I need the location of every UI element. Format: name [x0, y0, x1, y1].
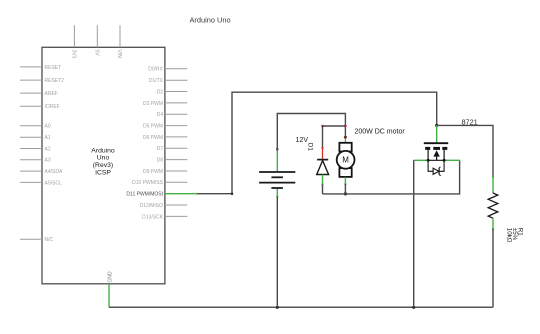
pin RESET2	[20, 78, 64, 84]
wire: green source lead (left)	[414, 159, 428, 161]
svg-text:D0/RX: D0/RX	[148, 67, 163, 73]
pin A1	[20, 135, 51, 141]
junction: MOSFET source on rail	[412, 306, 415, 309]
svg-text:N/C: N/C	[45, 237, 54, 243]
diode D1 symbol	[317, 160, 329, 175]
pin VIN (top)	[116, 25, 122, 58]
pin D7	[157, 146, 188, 152]
wire: diode anode to bottom mid wire	[322, 185, 324, 194]
pin D8	[157, 158, 188, 164]
wire: diode cathode lead (black then red)	[322, 126, 324, 148]
motor M1 (200W DC motor)	[337, 143, 355, 177]
svg-text:GND: GND	[107, 271, 113, 283]
pin RESET	[20, 65, 61, 71]
pin GND (bottom, connected)	[107, 271, 113, 283]
pin N/C	[20, 237, 54, 243]
wire: D11 green lead	[165, 193, 197, 195]
pin A4/SDA	[20, 169, 63, 175]
svg-text:A2: A2	[45, 146, 51, 152]
wire: D11 to top rail (black)	[197, 92, 437, 194]
svg-text:D11 PWM/MOSI: D11 PWM/MOSI	[126, 192, 163, 198]
node: MOSFET source-left junction	[427, 159, 430, 162]
pin 5V (top)	[94, 25, 100, 56]
svg-text:M: M	[342, 156, 349, 165]
svg-text:5V: 5V	[94, 50, 100, 57]
Arduino Uno module U1 body	[42, 47, 165, 283]
junction: motor minus on mid wire	[344, 192, 347, 195]
svg-text:ICSP: ICSP	[95, 170, 111, 177]
pin D1/TX	[149, 78, 187, 84]
pin 3V3 (top)	[71, 25, 77, 58]
svg-text:A0: A0	[45, 124, 51, 130]
pin AREF	[20, 91, 58, 97]
svg-text:Uno: Uno	[97, 155, 110, 162]
bendpoint mark on D11 wire	[196, 193, 198, 195]
svg-text:8721: 8721	[462, 117, 478, 126]
pin D3 PWM	[143, 101, 187, 107]
wire: battery plus green lead	[276, 151, 278, 172]
svg-text:D1: D1	[306, 143, 313, 151]
svg-text:D8: D8	[157, 158, 164, 164]
node: gate net junction	[435, 124, 438, 127]
MOSFET body diode	[428, 160, 444, 175]
pin D2	[157, 89, 188, 95]
svg-text:D4: D4	[157, 112, 164, 118]
Arduino internal label (Arduino Uno (Rev3) ICSP)	[91, 147, 115, 176]
wire: green lead resistor bottom	[492, 218, 494, 229]
wire: gate green lead	[436, 125, 438, 142]
svg-text:D9 PWM: D9 PWM	[143, 169, 163, 175]
battery BAT1 plates	[259, 172, 295, 188]
svg-text:D13/SCK: D13/SCK	[142, 214, 164, 220]
svg-text:Arduino: Arduino	[91, 147, 115, 154]
wire: resistor to ground rail	[492, 229, 494, 307]
svg-text:Arduino Uno: Arduino Uno	[190, 16, 231, 25]
svg-text:IOREF: IOREF	[45, 104, 60, 110]
svg-text:RESET2: RESET2	[45, 78, 65, 84]
svg-text:D7: D7	[157, 146, 164, 152]
wire: net 8721 to resistor	[437, 125, 493, 177]
node: MOSFET drain-right junction	[443, 159, 446, 162]
wire: green lead resistor top	[492, 177, 494, 194]
svg-text:D10 PWM/SS: D10 PWM/SS	[132, 180, 164, 186]
pin D5 PWM	[143, 124, 187, 130]
pin D13/SCK	[142, 214, 187, 220]
pin D10 PWM/SS	[132, 180, 187, 186]
MOSFET Q1 (8721) symbol	[424, 143, 448, 160]
svg-text:D3 PWM: D3 PWM	[143, 101, 163, 107]
svg-text:3V3: 3V3	[71, 50, 77, 59]
pin A3	[20, 158, 51, 164]
svg-text:VIN: VIN	[116, 50, 122, 59]
wire: battery plus rail to motor (top)	[277, 114, 345, 150]
pin A2	[20, 146, 51, 152]
wire: GND green lead from Arduino	[108, 284, 110, 307]
node: jumper end red dots	[321, 125, 323, 127]
wire: motor plus green stub	[344, 139, 346, 143]
pin D12/MISO	[140, 203, 188, 209]
pin IOREF	[20, 104, 60, 110]
wire: battery minus to ground rail	[276, 197, 278, 308]
wire: motor minus green lead	[344, 177, 346, 184]
svg-text:(Rev3): (Rev3)	[93, 162, 113, 169]
pin A5/SCL	[20, 180, 62, 186]
wire: diode anode green lead	[322, 175, 324, 185]
wire: MOSFET source to ground rail	[413, 160, 415, 307]
node: motor plus junction (maroon dot)	[344, 136, 347, 139]
pin D4	[157, 112, 188, 118]
resistor R1 zigzag	[488, 193, 498, 218]
pin D11 PWM/MOSI (connected)	[126, 192, 163, 198]
svg-text:D2: D2	[157, 89, 164, 95]
svg-text:D1/TX: D1/TX	[149, 78, 164, 84]
wire: ground rail (bottom)	[109, 306, 493, 308]
pin D6 PWM	[143, 135, 187, 141]
svg-text:D12/MISO: D12/MISO	[140, 203, 163, 209]
svg-text:D6 PWM: D6 PWM	[143, 135, 163, 141]
wire: battery minus green lead	[276, 189, 278, 197]
wire: motor minus to bottom mid wire	[344, 184, 346, 194]
resistor R1 value labels	[506, 228, 524, 243]
svg-text:D5 PWM: D5 PWM	[143, 124, 163, 130]
pin A0	[20, 124, 51, 130]
svg-text:AREF: AREF	[45, 91, 58, 97]
junction: battery minus on rail	[276, 306, 279, 309]
wire: bottom mid wire diode/motor to MOSFET drain	[323, 160, 460, 194]
junction at D11 wire bend	[231, 192, 234, 195]
wire: green drain lead (right)	[444, 159, 460, 161]
pin D0/RX	[148, 67, 187, 73]
svg-text:10kΩ: 10kΩ	[506, 228, 513, 243]
pin D9 PWM	[143, 169, 187, 175]
svg-text:200W DC motor: 200W DC motor	[355, 128, 406, 135]
svg-text:A1: A1	[45, 135, 51, 141]
svg-text:A3: A3	[45, 158, 51, 164]
wire: diode cathode jumper to motor net	[323, 125, 346, 127]
svg-text:RESET: RESET	[45, 65, 62, 71]
svg-text:A5/SCL: A5/SCL	[45, 180, 62, 186]
svg-text:A4/SDA: A4/SDA	[45, 169, 63, 175]
